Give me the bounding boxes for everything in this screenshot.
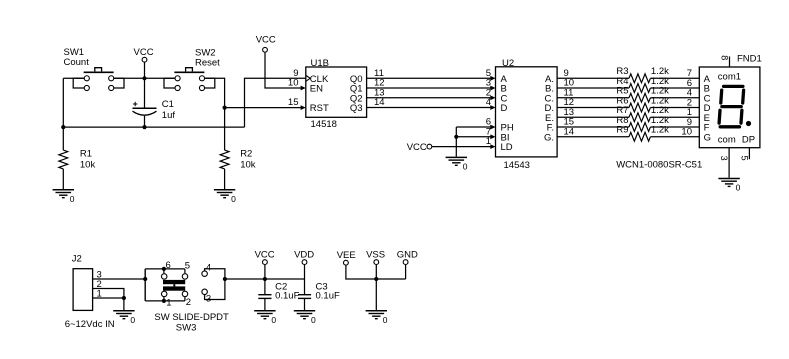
pin 3 bottom FND1 [719,148,729,178]
node junction J2 to SW3 [143,277,147,281]
svg-text:Count: Count [64,57,90,68]
resistor R3 1.2k [557,66,699,83]
wire J2 gnd drop [123,298,125,310]
svg-text:10: 10 [288,78,299,89]
svg-text:VEE: VEE [337,250,356,261]
switch SW3 slide DPDT left section [145,260,191,308]
ground C2 [254,311,276,325]
switch SW3 right section pins 4 3 [202,262,225,304]
svg-text:GND: GND [397,250,418,261]
ground C3 [294,311,316,325]
connector J2 box [65,254,115,331]
svg-text:10: 10 [681,127,692,138]
svg-text:VCC: VCC [255,250,275,261]
IC U2 14543 decoder [496,58,558,171]
svg-text:D: D [501,103,508,114]
svg-text:10k: 10k [240,159,256,170]
svg-text:VCC: VCC [134,47,154,58]
svg-text:1uf: 1uf [162,110,176,121]
svg-text:SW SLIDE-DPDT: SW SLIDE-DPDT [154,312,229,323]
resistor R4 1.2k [557,76,699,93]
resistor R8 1.2k [557,115,699,132]
svg-text:G.: G. [544,132,554,143]
svg-text:R2: R2 [240,148,252,159]
svg-text:RST: RST [310,103,329,114]
svg-text:0.1uF: 0.1uF [275,291,299,302]
wire SW2 right corner down [205,78,225,150]
power VCC symbol 2 [256,35,306,91]
svg-text:1: 1 [97,289,102,300]
node junction SW2 RST R2 [223,106,227,110]
svg-text:5: 5 [739,156,749,161]
wire SW1 left drop [62,78,64,127]
svg-text:0: 0 [231,194,236,204]
svg-text:VSS: VSS [366,250,385,261]
ground J2 [113,311,135,325]
svg-text:FND1: FND1 [737,54,762,65]
pin 1 LD label [486,136,491,147]
resistor R6 1.2k [557,95,699,112]
node junction VSS rail [374,277,378,281]
power VSS symbol [366,250,385,311]
svg-text:DP: DP [742,134,755,145]
wire top rail SW1 left [63,77,83,79]
ground R2 [214,190,236,204]
svg-text:0.1uF: 0.1uF [316,291,340,302]
node junction J2 pin1 pin2 [122,296,126,300]
capacitor C2 0.1uF [258,281,299,310]
svg-text:3: 3 [206,293,211,304]
svg-text:0: 0 [383,315,388,325]
power VEE symbol [337,250,406,279]
svg-text:14: 14 [564,126,575,137]
power VCC symbol bottom [255,250,275,294]
ground VSS [366,311,388,325]
wire CLK feed riser [245,78,306,127]
svg-text:15: 15 [288,97,299,108]
resistor R9 1.2k [557,125,699,142]
svg-text:VDD: VDD [294,250,314,261]
svg-text:14518: 14518 [311,119,337,130]
node junction C1 rail [142,125,146,129]
wire BI feed [456,126,495,139]
svg-text:14: 14 [374,97,385,108]
svg-text:WCN1-0080SR-C51: WCN1-0080SR-C51 [616,159,702,170]
svg-text:com: com [718,134,736,145]
svg-text:com1: com1 [718,71,741,82]
wire Q0-Q3 to A-D [367,68,496,110]
svg-text:VCC: VCC [256,35,276,46]
capacitor C3 0.1uF [298,281,340,310]
resistor R2 10k [220,148,256,189]
wire SW3 out to VDD [225,278,305,280]
wire PH feed [456,117,495,130]
power GND symbol [397,250,418,279]
svg-text:0: 0 [130,315,135,325]
display FND1 digit 8 and DP [719,86,751,126]
wire C1 bottom to rail [144,116,146,127]
svg-text:6: 6 [166,260,171,271]
svg-text:U2: U2 [502,58,514,69]
node junction R1 rail [61,125,65,129]
node junction VCC rail [142,76,146,80]
pin 8 top FND1 [719,55,729,67]
power VCC symbol 3 LD [407,142,496,153]
svg-text:0: 0 [311,315,316,325]
wire PH BI gnd riser [455,127,457,157]
label WCN1-0080SR-C51 [616,159,702,170]
pin 5 bottom FND1 [739,148,749,161]
svg-text:U1B: U1B [311,58,329,69]
svg-text:LD: LD [501,142,513,153]
svg-text:Q3: Q3 [350,103,363,114]
svg-text:EN: EN [310,84,323,95]
svg-text:R1: R1 [80,148,92,159]
node junction BI [454,135,458,139]
svg-text:14543: 14543 [504,160,530,171]
svg-text:R9: R9 [616,125,628,136]
resistor R7 1.2k [557,105,699,122]
svg-text:3: 3 [719,156,729,161]
wire SW1 right to VCC junction to SW2 left [114,77,174,79]
wire J2 pin1 [93,289,124,300]
wire J2 pin2 [93,279,124,298]
display FND1 box [699,54,762,148]
capacitor C1 1uf [133,99,176,121]
svg-text:Reset: Reset [195,57,220,68]
svg-text:1: 1 [486,136,491,147]
wire RST feed [225,105,306,110]
switch SW1 pushbutton Count [64,47,125,90]
label SW SLIDE-DPDT [154,312,229,334]
node junction VCC rail bottom [263,277,267,281]
svg-text:6~12Vdc IN: 6~12Vdc IN [65,319,115,330]
svg-text:0: 0 [736,183,741,193]
svg-text:2: 2 [186,297,191,308]
op-amp U1B 14518 counter [288,58,367,130]
ground FND1 [718,179,740,193]
svg-text:8: 8 [719,55,729,60]
display FND1 labels [704,71,756,145]
svg-text:0: 0 [271,315,276,325]
svg-text:10k: 10k [80,159,96,170]
svg-text:1.2k: 1.2k [651,125,669,136]
svg-text:4: 4 [486,97,491,108]
wire J2 pin3 [93,270,146,281]
svg-text:C1: C1 [162,99,174,110]
wire VCC stem to C1 [144,78,146,108]
svg-text:VCC: VCC [407,142,427,153]
svg-text:G: G [704,132,711,143]
power VDD symbol [294,250,314,294]
node junction SW3 out [223,277,227,281]
resistor R1 10k [59,127,96,189]
power VCC symbol 1 [134,47,154,78]
ground U2 [446,157,468,171]
svg-text:SW3: SW3 [176,323,197,334]
switch SW2 pushbutton Reset [164,47,220,90]
svg-text:5: 5 [185,260,190,271]
resistor R5 1.2k [557,86,699,103]
svg-text:0: 0 [463,162,468,172]
svg-text:4: 4 [206,262,211,273]
wire bottom rail [63,126,244,128]
svg-text:J2: J2 [72,254,82,265]
svg-text:1: 1 [166,297,171,308]
ground R1 [53,190,75,204]
svg-text:0: 0 [70,194,75,204]
